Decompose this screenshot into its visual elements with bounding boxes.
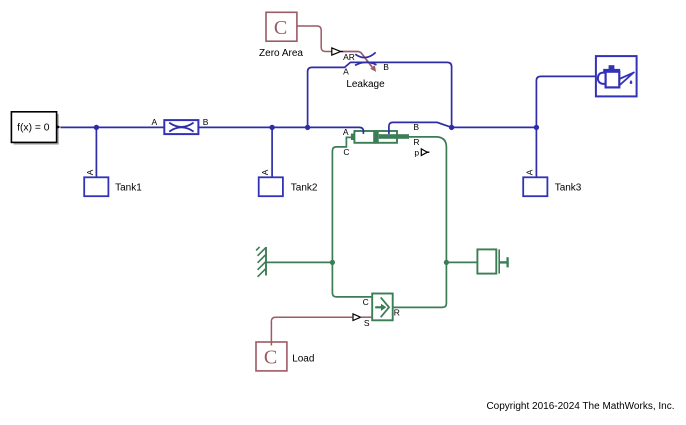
- svg-text:A: A: [152, 117, 158, 127]
- oil drop: [630, 80, 633, 84]
- svg-text:Leakage: Leakage: [346, 79, 385, 90]
- svg-text:Tank2: Tank2: [291, 183, 318, 194]
- wire: up to fluid block: [536, 76, 597, 127]
- tank block Tank3: [523, 177, 547, 196]
- svg-text:C: C: [363, 297, 369, 307]
- cylinder left cap: [351, 134, 355, 140]
- svg-text:C: C: [343, 147, 349, 157]
- ground reference: [265, 247, 267, 276]
- wire: solver to orifice A: [60, 126, 164, 128]
- solver block f(x)=0: [11, 112, 56, 143]
- wire: main to tank3 junction: [452, 126, 537, 128]
- svg-text:A: A: [260, 169, 270, 175]
- svg-text:AR: AR: [343, 52, 355, 62]
- solver block output port: [57, 125, 60, 129]
- wire: drop to Tank2: [271, 127, 273, 182]
- node: junction on right mech rail: [444, 260, 449, 265]
- oil can lid: [603, 69, 620, 72]
- node: junction on left mech rail: [330, 260, 335, 265]
- fixed orifice block: [164, 120, 198, 134]
- svg-text:B: B: [383, 62, 389, 72]
- cylinder piston: [373, 130, 379, 143]
- oil can body: [606, 72, 620, 88]
- node: junction above Tank1: [94, 125, 99, 130]
- wire: leakage loop: [308, 62, 452, 127]
- svg-text:Zero Area: Zero Area: [259, 48, 303, 59]
- svg-text:R: R: [413, 137, 419, 147]
- wire: drop to Tank3: [535, 127, 537, 182]
- wire: drop to Tank1: [95, 127, 97, 182]
- svg-text:Load: Load: [292, 354, 314, 365]
- svg-text:A: A: [525, 169, 535, 175]
- constant block Zero Area: [266, 12, 297, 41]
- svg-text:B: B: [413, 122, 419, 132]
- svg-text:C: C: [274, 17, 287, 39]
- tank block Tank2: [259, 177, 283, 196]
- node: junction to leakage loop: [305, 125, 310, 130]
- solver block f(x)=0 shadow: [14, 114, 59, 145]
- oil can handle: [598, 73, 606, 84]
- svg-text:p: p: [414, 147, 419, 157]
- hydraulic cylinder body: [354, 131, 397, 143]
- constant block Load: [256, 342, 287, 371]
- wire: Load to force source S: [271, 317, 352, 345]
- wire: ground to junction: [266, 261, 332, 263]
- wire stub A into cylinder: [362, 130, 364, 134]
- oil can spout: [619, 72, 634, 85]
- svg-text:Tank3: Tank3: [555, 183, 582, 194]
- node: junction above Tank3: [534, 125, 539, 130]
- cylinder rod: [379, 134, 409, 139]
- node: junction above Tank2: [269, 125, 274, 130]
- wire: orifice B to cylinder A: [198, 127, 363, 133]
- svg-text:S: S: [364, 318, 370, 328]
- PS port triangle S: [353, 314, 361, 321]
- wire: Zero Area to leakage AR: [297, 26, 332, 52]
- wire: cylinder B up and over: [389, 122, 452, 134]
- svg-text:C: C: [264, 347, 277, 369]
- svg-text:A: A: [343, 67, 349, 77]
- force source block: [372, 294, 393, 321]
- fixed orifice curves: [169, 123, 193, 127]
- tank block Tank1: [84, 177, 108, 196]
- svg-text:Tank1: Tank1: [115, 183, 142, 194]
- force source icon arrow: [375, 306, 381, 308]
- svg-text:A: A: [85, 169, 95, 175]
- wire: cylinder R down to force source R: [393, 137, 447, 308]
- svg-text:R: R: [394, 307, 400, 317]
- svg-text:Copyright 2016-2024 The MathWo: Copyright 2016-2024 The MathWorks, Inc.: [486, 401, 674, 412]
- mass block: [477, 249, 496, 273]
- hydraulic fluid block: [596, 56, 637, 96]
- wire: cylinder C to force source C: [332, 137, 372, 297]
- svg-text:A: A: [343, 127, 349, 137]
- leakage variable orifice: signal line and arrow: [343, 52, 372, 68]
- svg-text:f(x) = 0: f(x) = 0: [17, 123, 50, 134]
- wire stub B into cylinder: [388, 130, 390, 134]
- leakage arcs: [355, 52, 375, 57]
- unconnected PS port p: [421, 149, 427, 156]
- wire: junction to mass: [446, 261, 477, 263]
- node: junction right of cylinder: [449, 125, 454, 130]
- PS port triangle AR: [332, 48, 341, 55]
- svg-text:B: B: [203, 117, 209, 127]
- oil can cap: [609, 65, 615, 69]
